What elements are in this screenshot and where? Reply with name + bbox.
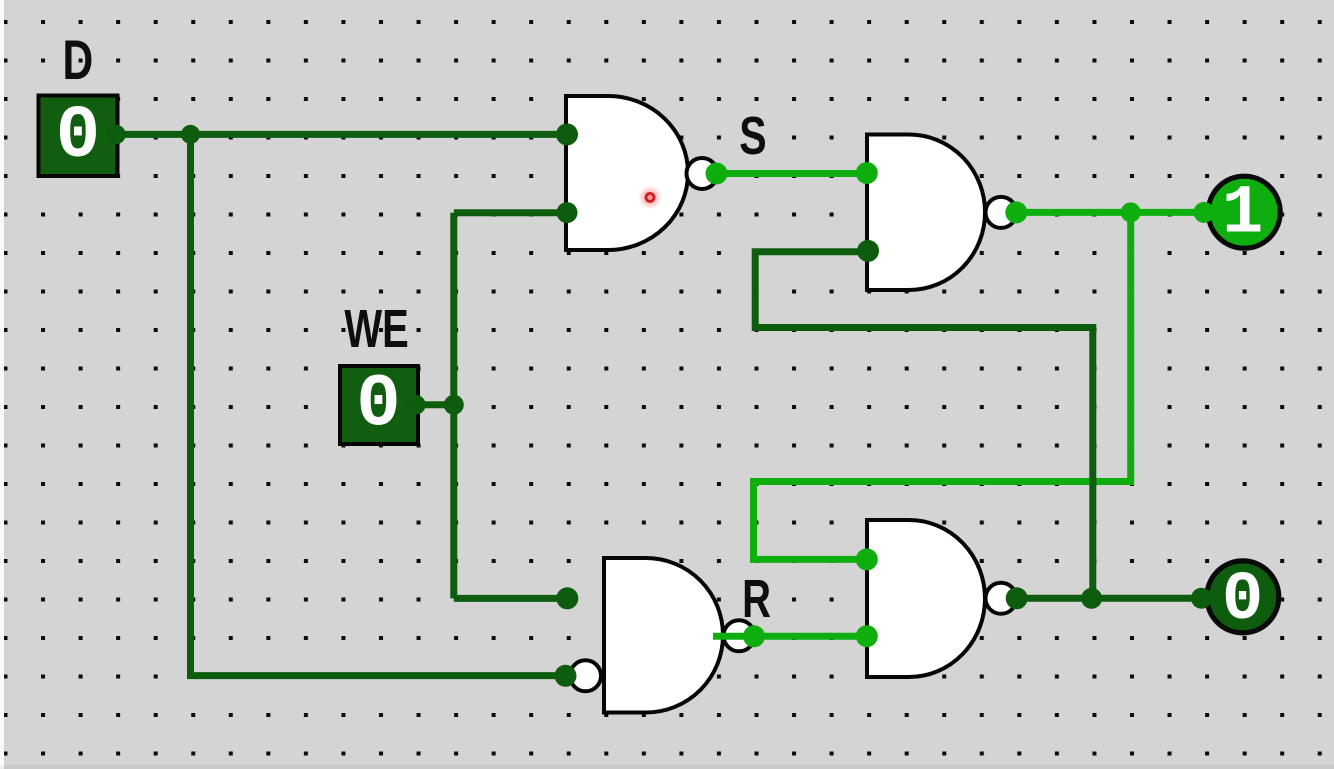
junction on WE net xyxy=(444,395,464,415)
nand gate U2 (bottom-left) body xyxy=(604,558,723,713)
svg-text:WE: WE xyxy=(344,299,408,359)
wire Qb feedback net (dark, G3 bottom input left-down-right-down to output junction) xyxy=(755,252,1093,599)
svg-text:0: 0 xyxy=(356,364,400,448)
input box WE xyxy=(340,366,418,444)
nand gate U2 input negation bubble xyxy=(570,660,601,691)
wire D net horizontal (dark, D input to G1 top input) xyxy=(125,131,567,138)
label R xyxy=(742,569,771,629)
node G2 input A xyxy=(556,587,578,609)
label WE xyxy=(344,299,408,359)
nand gate U1 (top-left) body xyxy=(566,96,688,250)
wire Q net output segment (bright, G3 output to pin 1) xyxy=(1016,209,1203,216)
output pin Qb (value 0) xyxy=(1207,561,1279,633)
svg-text:D: D xyxy=(63,28,94,91)
wire WE lower branch (dark, to G2 top input) xyxy=(454,595,567,602)
wire WE upper branch (dark, to G1 lower input) xyxy=(454,209,567,216)
red cursor ring xyxy=(646,193,654,201)
svg-text:0: 0 xyxy=(56,95,100,179)
node G1 output S xyxy=(706,163,728,185)
node G2 input B (at negation bubble) xyxy=(555,665,577,687)
nand gate U3 (top-right) body xyxy=(867,135,985,291)
node G4 input B xyxy=(856,625,878,647)
nand gate U4 (bottom-right) body xyxy=(867,520,985,677)
label D xyxy=(63,28,94,91)
label S xyxy=(739,107,766,167)
output pin Qb stub xyxy=(1191,588,1212,609)
nand gate U4 output bubble xyxy=(986,583,1017,614)
node G3 input A xyxy=(856,162,878,184)
wire R net (bright, G2 output over bubble to G4 lower input) xyxy=(713,633,866,640)
node G4 output xyxy=(1006,587,1028,609)
wire WE vertical (dark) xyxy=(450,213,457,599)
input box D xyxy=(39,96,118,177)
wire Q feedback net (bright, junction down-left-down-right to G4 top input) xyxy=(754,212,1131,559)
junction on Q net xyxy=(1121,202,1141,222)
svg-text:S: S xyxy=(739,107,766,167)
input D pin stub xyxy=(106,125,125,144)
node G4 input A xyxy=(856,548,878,570)
node G3 input B xyxy=(857,240,879,262)
left white strip xyxy=(0,0,4,769)
input WE pin stub xyxy=(406,395,425,414)
output pin Q stub xyxy=(1194,202,1215,223)
svg-text:1: 1 xyxy=(1222,175,1263,253)
wire S net (bright, G1 output to G3 input) xyxy=(716,170,867,177)
nand gate U1 output bubble xyxy=(687,158,718,189)
nand gate U3 output bubble xyxy=(986,197,1017,228)
junction on D net xyxy=(181,125,200,144)
output pin Q (value 1) xyxy=(1208,176,1280,248)
junction on Qb net xyxy=(1081,588,1102,609)
svg-text:R: R xyxy=(742,569,771,629)
node G1 input B xyxy=(557,202,578,223)
node G2 output R xyxy=(743,625,765,647)
wire WE stub (dark, WE box to junction) xyxy=(418,401,454,408)
red cursor halo xyxy=(638,185,662,209)
node G1 input A xyxy=(556,123,578,145)
node G3 output xyxy=(1005,201,1027,223)
svg-text:0: 0 xyxy=(1222,561,1263,639)
wire Qb output segment (dark, G4 output to pin 0) xyxy=(1017,595,1202,602)
nand gate U2 output bubble xyxy=(724,620,755,651)
wire D net vertical + bottom branch (dark, to G2 lower input) xyxy=(191,134,567,675)
